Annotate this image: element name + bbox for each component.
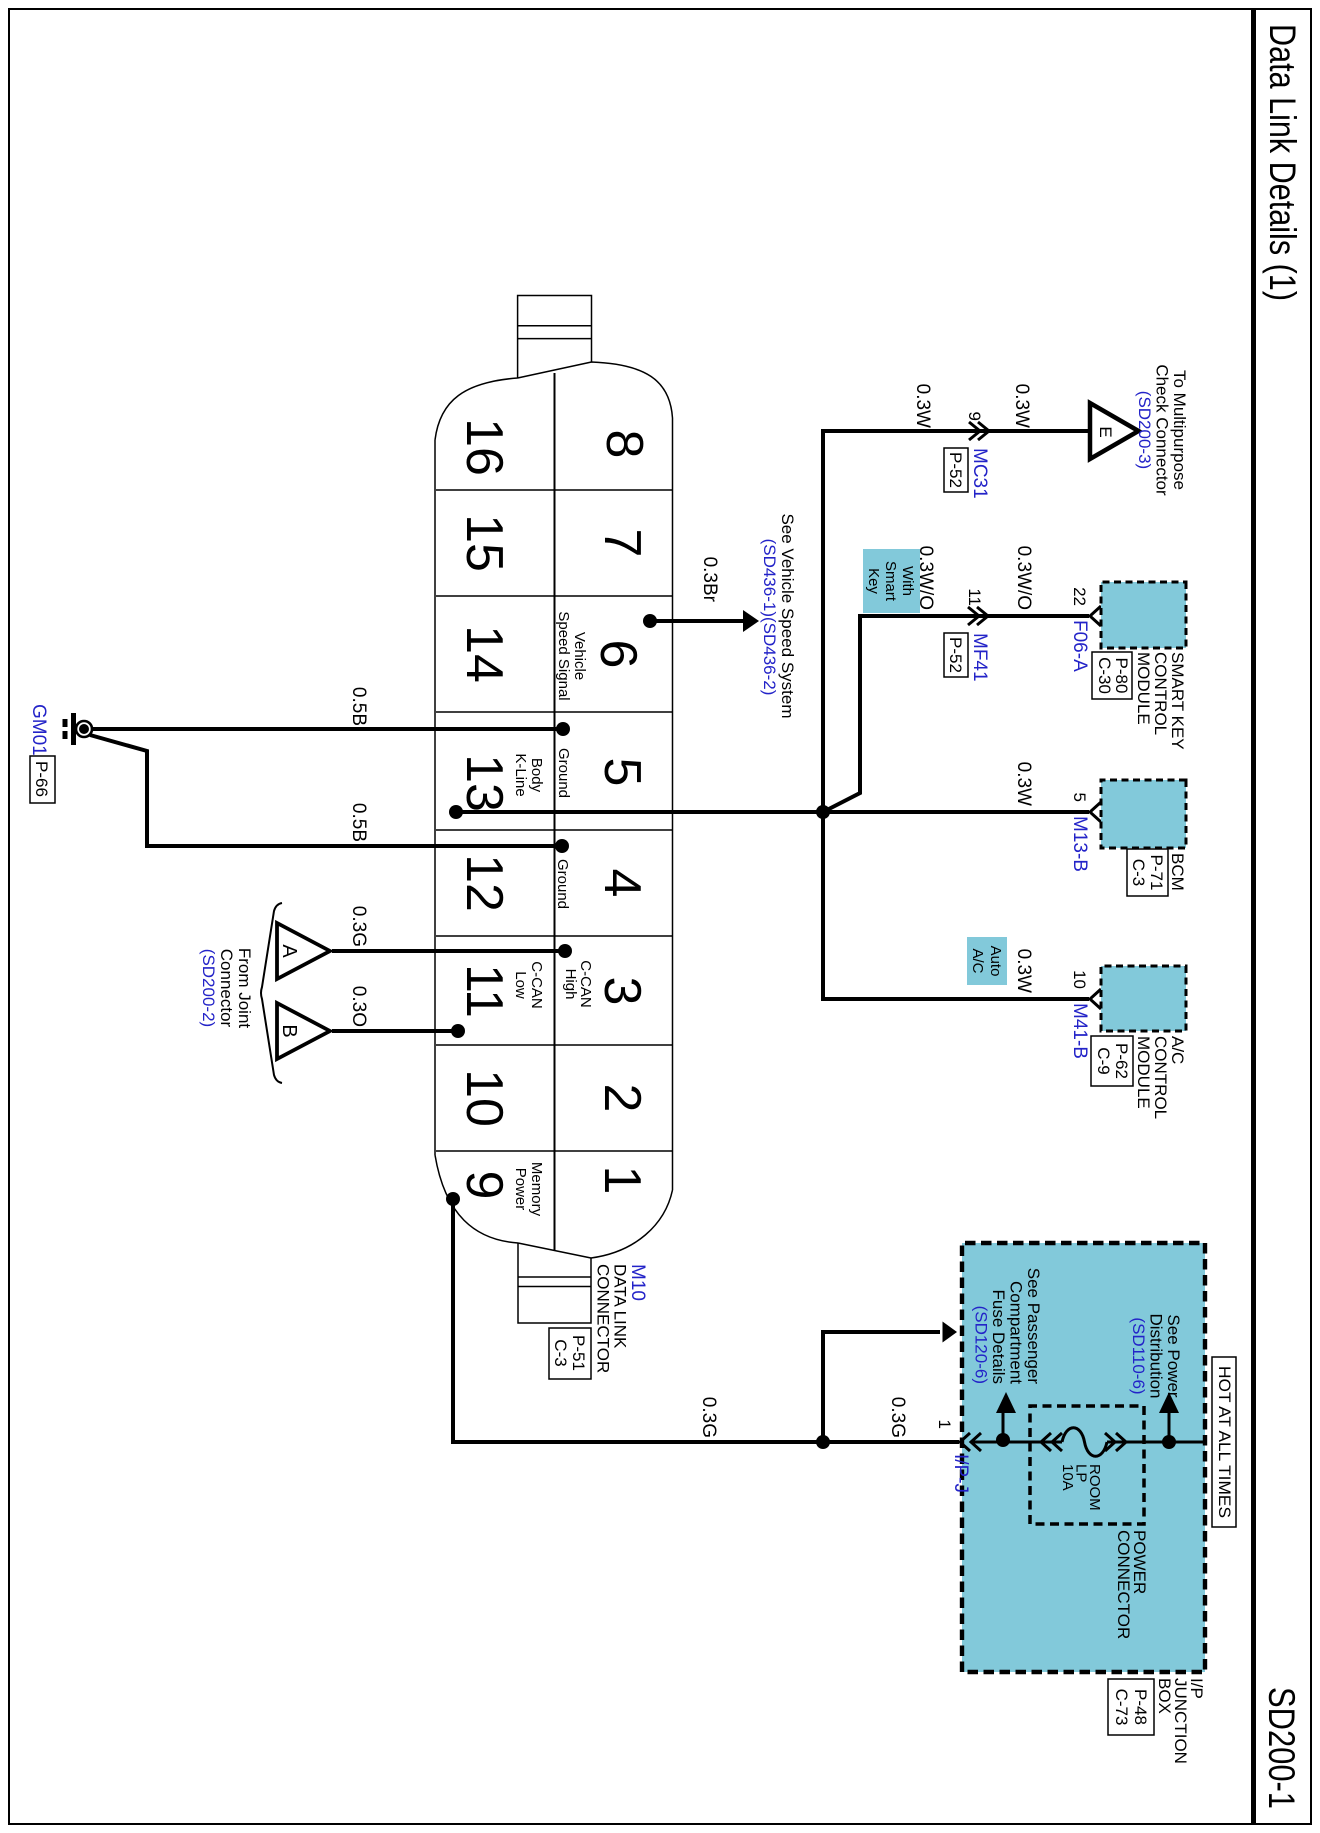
svg-text:0.3G: 0.3G (348, 906, 369, 947)
arrow to see passenger reference (996, 1392, 1016, 1413)
svg-text:Auto: Auto (987, 946, 1004, 977)
svg-text:Compartment: Compartment (1007, 1281, 1026, 1384)
svg-text:0.3W: 0.3W (1011, 384, 1032, 428)
svg-text:P-48: P-48 (1131, 1689, 1150, 1725)
junction F06-A entry (1090, 606, 1101, 626)
label power connector (1114, 1530, 1149, 1639)
svg-text:10A: 10A (1059, 1464, 1076, 1491)
wire pin11 to joint connector B (332, 1029, 458, 1033)
svg-text:7: 7 (593, 529, 651, 558)
cell boundary 6/5 and 14/13 (436, 711, 672, 713)
svg-text:0.3Br: 0.3Br (699, 557, 720, 603)
box P-71 C-3 (1127, 849, 1168, 896)
box P-80 C-30 (1092, 652, 1132, 699)
svg-text:BOX: BOX (1155, 1678, 1174, 1714)
svg-text:10: 10 (455, 1069, 513, 1127)
label smart key control module (1134, 652, 1187, 750)
svg-text:MC31: MC31 (969, 448, 990, 499)
svg-text:Ground: Ground (554, 859, 571, 909)
svg-text:I/P-J: I/P-J (950, 1454, 971, 1493)
cell boundary 7/6 and 15/14 (436, 595, 672, 597)
svg-text:P-52: P-52 (946, 452, 965, 488)
I/P junction box (962, 1243, 1205, 1672)
svg-text:K-Line: K-Line (512, 753, 529, 796)
svg-text:9: 9 (455, 1171, 513, 1200)
svg-text:A: A (278, 944, 300, 958)
wire J3 stub to arrow (1168, 1411, 1171, 1442)
label see passenger compartment fuse details (972, 1268, 1044, 1385)
triangle B joint connector (277, 1003, 330, 1059)
label auto a/c (967, 937, 1007, 985)
box P-62 C-9 (1091, 1036, 1133, 1086)
label body k-line pin13 (512, 753, 545, 796)
svg-text:5: 5 (1070, 793, 1089, 802)
svg-text:8: 8 (595, 430, 653, 459)
fuse element coil (1062, 1428, 1107, 1457)
wire pin9 to I/P junction box (453, 1199, 959, 1442)
svg-text:15: 15 (455, 514, 513, 572)
wire bus to A/C module (821, 997, 1089, 1001)
BCM module box (1101, 780, 1186, 848)
label to multipurpose check connector (1135, 364, 1189, 496)
fuse right chevrons (1105, 1433, 1126, 1451)
arrow into I/P box see passenger (943, 1322, 958, 1343)
svg-text:See Vehicle Speed System: See Vehicle Speed System (778, 513, 797, 718)
fuse left chevrons (1041, 1433, 1062, 1451)
svg-text:16: 16 (455, 418, 513, 476)
svg-text:Data Link Details (1): Data Link Details (1) (1262, 24, 1303, 301)
label room lp 10a (1059, 1464, 1103, 1511)
svg-text:P-66: P-66 (32, 761, 51, 797)
triangle E multipurpose check connector (1090, 403, 1139, 459)
svg-text:Connector: Connector (217, 949, 236, 1028)
label from joint connector (199, 948, 254, 1029)
label a/c control module (1134, 1036, 1187, 1119)
svg-text:M13-B: M13-B (1069, 816, 1090, 872)
svg-text:From Joint: From Joint (235, 948, 254, 1029)
cell boundary 5/4 and 13/12 (436, 829, 672, 831)
svg-text:5: 5 (593, 758, 651, 787)
wire pin3 to joint connector A (332, 949, 565, 953)
hot at all times box (1212, 1357, 1236, 1527)
svg-text:14: 14 (455, 625, 513, 683)
svg-text:6: 6 (589, 640, 647, 669)
svg-text:HOT AT ALL TIMES: HOT AT ALL TIMES (1215, 1366, 1234, 1518)
wire bus to E triangle (821, 429, 1089, 433)
label memory power pin9 (512, 1162, 545, 1217)
svg-text:Speed Signal: Speed Signal (555, 611, 572, 700)
junction MC31 chevrons (969, 422, 989, 440)
connector left tab (518, 296, 592, 379)
junction I/P-J chevrons (960, 1433, 981, 1451)
svg-text:4: 4 (593, 869, 651, 898)
svg-text:GM01: GM01 (28, 704, 49, 756)
node junction J3 (1162, 1435, 1176, 1449)
svg-text:P-51: P-51 (569, 1335, 588, 1371)
svg-text:B: B (278, 1024, 300, 1037)
connector right tab (518, 1243, 591, 1323)
wire pin4 to ground GM01 (90, 735, 562, 846)
label M10 data link connector (594, 1264, 649, 1373)
node pin4 ground (555, 839, 569, 853)
label see power distribution (1129, 1313, 1183, 1398)
svg-text:C-CAN: C-CAN (528, 961, 545, 1009)
svg-text:CONNECTOR: CONNECTOR (1114, 1530, 1133, 1639)
svg-text:1: 1 (593, 1166, 651, 1195)
svg-text:0.3G: 0.3G (698, 1397, 719, 1438)
svg-text:(SD436-1)(SD436-2): (SD436-1)(SD436-2) (760, 539, 779, 696)
svg-text:22: 22 (1070, 587, 1089, 606)
svg-text:C-3: C-3 (551, 1339, 570, 1366)
brace under triangles (261, 903, 282, 1083)
node pin13 k-line (449, 805, 463, 819)
svg-text:1: 1 (935, 1420, 954, 1429)
junction M41-B entry (1090, 989, 1101, 1009)
svg-text:0.3O: 0.3O (348, 986, 369, 1027)
arrow to vehicle speed system (743, 610, 759, 632)
svg-text:Body: Body (528, 758, 545, 793)
svg-text:MODULE: MODULE (1134, 652, 1153, 725)
svg-text:Distribution: Distribution (1147, 1313, 1166, 1398)
svg-text:High: High (562, 969, 579, 1000)
svg-text:E: E (1096, 426, 1115, 437)
svg-text:0.5B: 0.5B (348, 687, 369, 726)
svg-text:0.3W: 0.3W (1013, 762, 1034, 806)
svg-text:MODULE: MODULE (1134, 1036, 1153, 1109)
svg-text:P-71: P-71 (1147, 855, 1166, 891)
svg-text:Fuse Details: Fuse Details (989, 1290, 1008, 1384)
svg-text:C-30: C-30 (1095, 657, 1114, 694)
connector center line (554, 373, 556, 1250)
smart key control module box (1101, 582, 1186, 648)
wire J1 branch to fuse details arrow (823, 1332, 940, 1442)
node pin3 c-can high (558, 944, 572, 958)
wire k-line bus (821, 433, 825, 999)
svg-text:SD200-1: SD200-1 (1261, 1687, 1302, 1809)
svg-text:Low: Low (512, 971, 529, 999)
wire pin5 to ground GM01 (93, 727, 563, 731)
svg-text:M41-B: M41-B (1069, 1003, 1090, 1059)
svg-text:Check Connector: Check Connector (1153, 364, 1172, 496)
svg-text:3: 3 (593, 977, 651, 1006)
svg-text:(SD200-2): (SD200-2) (199, 949, 218, 1027)
label I/P junction box (1155, 1678, 1206, 1764)
svg-text:(SD120-6): (SD120-6) (972, 1306, 991, 1384)
node pin5 ground (556, 722, 570, 736)
cell boundary 4/3 and 12/11 (436, 935, 672, 937)
label c-can high pin3 (562, 960, 594, 1008)
node power wire junction J1 (816, 1435, 830, 1449)
cell boundary 3/2 and 11/10 (436, 1044, 672, 1046)
wire pin6 to vehicle speed arrow (650, 619, 744, 623)
svg-text:F06-A: F06-A (1069, 620, 1090, 672)
ground symbol GM01 (65, 713, 92, 745)
svg-text:Vehicle: Vehicle (571, 632, 588, 680)
svg-text:P-62: P-62 (1112, 1043, 1131, 1079)
wire inside I/P box (971, 1441, 1203, 1444)
svg-text:9: 9 (965, 412, 984, 421)
svg-text:Ground: Ground (555, 748, 572, 798)
svg-text:BCM: BCM (1168, 853, 1187, 891)
svg-text:Memory: Memory (528, 1162, 545, 1217)
svg-text:A/C: A/C (969, 948, 986, 973)
svg-text:MF41: MF41 (969, 633, 990, 682)
node pin6 (643, 614, 657, 628)
label c-can low pin11 (512, 961, 545, 1009)
label with smart key (863, 549, 920, 613)
svg-text:0.3G: 0.3G (887, 1397, 908, 1438)
box P-66 (30, 756, 55, 803)
box P-48 C-73 (1108, 1679, 1154, 1735)
cell boundary 2/1 and 10/9 (436, 1150, 672, 1152)
svg-text:(SD110-6): (SD110-6) (1129, 1317, 1148, 1394)
cell boundary 8/7 and 16/15 (436, 489, 672, 491)
svg-text:P-52: P-52 (946, 637, 965, 673)
header separator thick line (1251, 9, 1256, 1824)
svg-text:0.3W: 0.3W (1013, 949, 1034, 993)
label see vehicle speed system (760, 513, 797, 718)
svg-text:0.3W: 0.3W (912, 384, 933, 428)
svg-text:11: 11 (455, 964, 513, 1018)
node pin11 c-can low (451, 1024, 465, 1038)
svg-text:See Power: See Power (1164, 1314, 1183, 1397)
svg-text:13: 13 (455, 754, 513, 812)
svg-text:0.3W/O: 0.3W/O (1013, 546, 1034, 610)
junction M13-B entry (1090, 802, 1101, 822)
box P-52 MC31 (944, 448, 968, 492)
svg-text:C-9: C-9 (1094, 1047, 1113, 1074)
wire pin13 k-line to BCM (456, 810, 1089, 814)
svg-text:0.5B: 0.5B (348, 803, 369, 842)
svg-text:With: With (899, 566, 916, 596)
A/C control module box (1101, 966, 1186, 1031)
label vehicle speed signal pin6 (555, 611, 588, 700)
box P-52 MF41 (944, 633, 968, 677)
svg-text:11: 11 (965, 588, 984, 606)
svg-text:10: 10 (1070, 970, 1089, 989)
svg-text:Smart: Smart (882, 561, 899, 602)
svg-text:(SD200-3): (SD200-3) (1135, 391, 1154, 469)
svg-text:See Passenger: See Passenger (1024, 1268, 1043, 1385)
node junction J2 (996, 1433, 1010, 1447)
data link connector M10 outline (435, 362, 673, 1258)
svg-text:2: 2 (593, 1084, 651, 1113)
node pin9 memory power (446, 1192, 460, 1206)
wire J2 stub to arrow (1002, 1411, 1005, 1440)
room lp fuse box (1030, 1406, 1144, 1524)
junction MF41 chevrons (968, 607, 988, 625)
svg-text:C-73: C-73 (1112, 1689, 1131, 1726)
box P-51 C-3 (549, 1328, 591, 1379)
wire bus to smart key module (823, 616, 1089, 812)
svg-text:To Multipurpose: To Multipurpose (1170, 370, 1189, 490)
svg-text:C-3: C-3 (1129, 859, 1148, 886)
svg-text:Power: Power (512, 1168, 529, 1211)
arrow to see power distribution (1159, 1392, 1179, 1413)
node k-line bus junction (816, 805, 830, 819)
svg-text:CONNECTOR: CONNECTOR (594, 1264, 613, 1373)
triangle A joint connector (277, 923, 330, 979)
svg-text:12: 12 (455, 854, 513, 912)
svg-text:Key: Key (865, 568, 882, 594)
